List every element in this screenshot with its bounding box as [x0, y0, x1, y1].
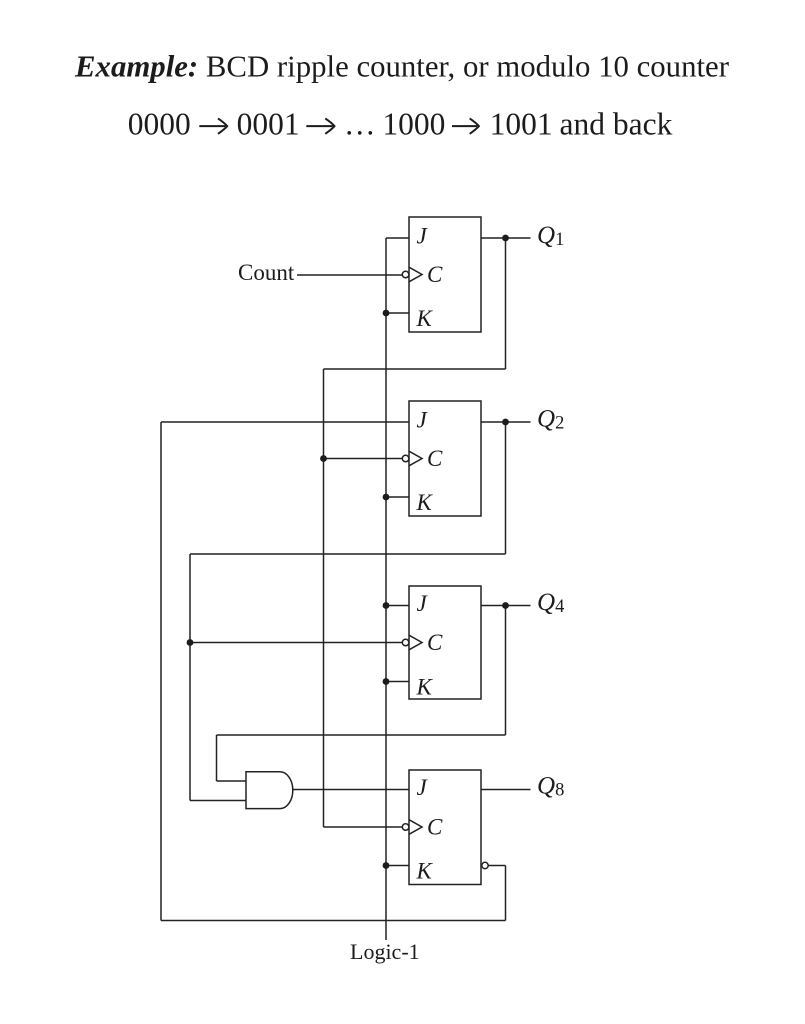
wire K1 input: [386, 312, 409, 314]
svg-text:…: …: [344, 107, 376, 142]
svg-text:1001: 1001: [490, 107, 553, 142]
svg-text:0000: 0000: [128, 107, 191, 142]
title arrow 3: [452, 118, 479, 133]
junction at Q1 output: [502, 235, 509, 242]
title arrow 1: [199, 118, 227, 133]
svg-text:C: C: [427, 815, 443, 840]
wire K4 input: [386, 865, 409, 867]
junction at K3 / logic-1: [383, 678, 390, 685]
wire J2 input: [161, 421, 409, 423]
wire Q2 horizontal: [190, 553, 506, 555]
svg-text:J: J: [417, 224, 429, 249]
svg-text:0001: 0001: [237, 107, 300, 142]
svg-text:C: C: [427, 446, 443, 471]
wire AND output to J8: [294, 789, 410, 791]
junction at Q4 output: [502, 602, 509, 609]
clock bubble U2: [402, 455, 409, 462]
svg-text:C: C: [427, 262, 443, 287]
wire Count to C1: [297, 274, 402, 276]
clock triangle U1: [409, 267, 422, 282]
wire AND lower input: [190, 800, 246, 802]
svg-text:J: J: [417, 408, 429, 433]
JK flip-flop U3 box (Q4): [409, 586, 481, 699]
wire Logic-1 vertical rail: [385, 238, 387, 940]
JK flip-flop U4 box (Q8): [409, 770, 481, 885]
wire Q8-bar down: [505, 866, 507, 921]
clock triangle U3: [409, 635, 422, 650]
wire Q1 output: [481, 237, 531, 239]
svg-text:K: K: [416, 859, 434, 884]
wire Q8 output: [481, 789, 531, 791]
svg-text:Count: Count: [238, 260, 295, 285]
Q-bar bubble U4: [482, 862, 488, 868]
title arrow 2: [306, 118, 334, 133]
wire J3 input: [386, 605, 409, 607]
wire Q4 output: [481, 605, 531, 607]
clock triangle U2: [409, 451, 422, 466]
clock bubble U4: [402, 824, 409, 831]
AND gate G1: [246, 772, 293, 809]
wire Q4 vertical to AND: [216, 735, 218, 781]
clock bubble U1: [402, 271, 409, 278]
svg-text:Example: BCD ripple counter, o: Example: BCD ripple counter, or modulo 1…: [74, 50, 729, 84]
wire Q4 horizontal: [217, 734, 506, 736]
junction at K2 / logic-1: [383, 494, 390, 501]
wire K3 input: [386, 681, 409, 683]
clock bubble U3: [402, 639, 409, 646]
JK flip-flop U1 box (Q1): [409, 217, 481, 332]
JK flip-flop U2 box (Q2): [409, 401, 481, 516]
wire feedback left vertical: [160, 422, 162, 921]
clock triangle U4: [409, 820, 422, 835]
wire K2 input: [386, 496, 409, 498]
wire Q1 horizontal to clock rail: [324, 368, 506, 370]
wire J1 input: [386, 237, 409, 239]
wire Q2 down: [505, 422, 507, 554]
wire feedback bottom horizontal: [161, 920, 506, 922]
wire C2 input: [324, 458, 403, 460]
wire Q1 down: [505, 238, 507, 369]
wire Q2 output: [481, 421, 531, 423]
wire Q2 vertical to AND: [189, 554, 191, 801]
wire AND upper input: [217, 780, 247, 782]
svg-text:1000: 1000: [382, 107, 445, 142]
junction at J3 / logic-1: [383, 602, 390, 609]
svg-text:J: J: [417, 775, 429, 800]
junction at K1 / logic-1: [383, 310, 390, 317]
svg-text:K: K: [416, 490, 434, 515]
wire Q4 down: [505, 606, 507, 736]
wire Q1 clock rail vertical: [323, 369, 325, 827]
junction at C2 / clock rail: [320, 455, 327, 462]
wire C3 input: [190, 642, 402, 644]
svg-text:and back: and back: [560, 107, 673, 142]
svg-text:K: K: [416, 306, 434, 331]
junction at Q2 output: [502, 419, 509, 426]
svg-text:J: J: [417, 591, 429, 616]
junction at C3 / Q2 rail: [187, 639, 194, 646]
wire C8 input: [324, 826, 403, 828]
junction at K4 / logic-1: [383, 862, 390, 869]
wire Q8-bar to right: [488, 865, 505, 867]
svg-text:K: K: [416, 675, 434, 700]
svg-text:C: C: [427, 630, 443, 655]
svg-text:Logic-1: Logic-1: [350, 939, 420, 964]
